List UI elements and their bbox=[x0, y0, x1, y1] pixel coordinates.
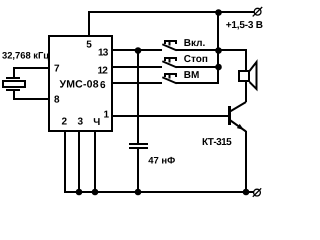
svg-text:7: 7 bbox=[54, 64, 60, 75]
svg-text:3: 3 bbox=[78, 117, 84, 128]
svg-text:8: 8 bbox=[54, 95, 60, 106]
svg-text:5: 5 bbox=[86, 40, 92, 51]
svg-text:32,768 кГц: 32,768 кГц bbox=[2, 49, 49, 60]
svg-text:КТ-315: КТ-315 bbox=[202, 137, 232, 148]
svg-text:12: 12 bbox=[98, 66, 109, 77]
svg-text:6: 6 bbox=[100, 80, 106, 91]
svg-text:13: 13 bbox=[98, 48, 109, 59]
svg-text:Вкл.: Вкл. bbox=[184, 38, 206, 49]
svg-text:47 нФ: 47 нФ bbox=[148, 156, 175, 167]
svg-text:2: 2 bbox=[62, 117, 68, 128]
svg-text:1: 1 bbox=[104, 110, 110, 121]
svg-text:Стоп: Стоп bbox=[184, 54, 208, 65]
svg-text:УМС-08: УМС-08 bbox=[60, 78, 99, 90]
svg-text:ВМ: ВМ bbox=[184, 70, 200, 81]
svg-text:Ч: Ч bbox=[93, 117, 100, 128]
svg-text:+1,5-3 В: +1,5-3 В bbox=[226, 20, 263, 31]
